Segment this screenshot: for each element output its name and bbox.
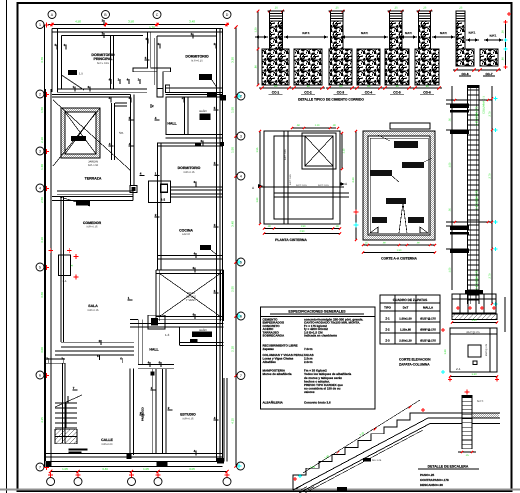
svg-text:1.20: 1.20 (471, 319, 477, 322)
svg-text:1.20x.80: 1.20x.80 (400, 328, 411, 332)
svg-text:2.70: 2.70 (489, 111, 492, 117)
svg-text:2: 2 (39, 92, 41, 96)
fixture blob (68, 70, 77, 75)
wall below dormitorio2 (166, 87, 223, 89)
svg-text:1.50: 1.50 (40, 107, 44, 113)
lavanderia blob (207, 93, 216, 97)
svg-text:SOBRECARGA: SOBRECARGA (263, 334, 286, 338)
svg-text:DESCANSO=.90: DESCANSO=.90 (420, 483, 443, 487)
stair hatch small (292, 482, 294, 490)
svg-text:5: 5 (39, 265, 41, 269)
svg-text:1.50: 1.50 (449, 267, 452, 272)
annotation blobs corte (394, 141, 418, 148)
corte cisterna top slab (390, 123, 430, 129)
block right wall top (220, 95, 226, 101)
column top red (465, 391, 470, 393)
svg-text:3.30: 3.30 (231, 57, 235, 63)
svg-text:Muros de albañilería: Muros de albañilería (263, 372, 292, 376)
footing hatch ground (452, 314, 497, 320)
wall band below pozo (130, 323, 224, 325)
top-left corner jog (57, 30, 59, 36)
svg-text:1.30: 1.30 (40, 164, 44, 170)
planta cisterna right dims (341, 133, 343, 169)
svg-text:Z-1: Z-1 (385, 317, 390, 321)
svg-text:N.P.T.: N.P.T. (469, 32, 476, 35)
corridor walls center-left (130, 95, 132, 186)
svg-text:.80: .80 (339, 85, 343, 88)
entrada door swing (60, 197, 90, 206)
svg-text:HALL: HALL (167, 122, 177, 126)
svg-text:MALLA: MALLA (423, 306, 434, 310)
planta cisterna top dims (292, 127, 336, 129)
svg-text:.30: .30 (335, 225, 339, 228)
red marks footing (456, 307, 460, 309)
door swing dormitorio principal (62, 75, 85, 90)
dimension line under CC-1 (259, 87, 292, 89)
svg-text:Z-3: Z-3 (385, 339, 390, 343)
upper hall top wall (166, 94, 223, 96)
small footing CC-7 (480, 49, 498, 66)
svg-text:Z-2: Z-2 (385, 328, 390, 332)
footing elevation (452, 294, 496, 313)
landing slab (423, 412, 500, 414)
svg-text:6 Ø 1/2@0.175: 6 Ø 1/2@0.175 (475, 190, 479, 209)
svg-text:3.10: 3.10 (40, 237, 44, 243)
svg-text:1.20: 1.20 (471, 373, 477, 376)
svg-text:Concreto bruto 3.6: Concreto bruto 3.6 (304, 401, 331, 405)
column block calle (127, 454, 132, 460)
svg-text:2.70: 2.70 (489, 273, 492, 279)
bano2 blobs (192, 332, 212, 338)
zapata tiny square (473, 361, 477, 365)
svg-text:1-1: 1-1 (62, 279, 67, 283)
svg-text:1.05: 1.05 (62, 467, 68, 471)
svg-text:1-3: 1-3 (165, 333, 170, 337)
dimension line under CC-3 (326, 87, 355, 89)
svg-text:CALLE: CALLE (101, 438, 113, 442)
svg-text:3.00: 3.00 (40, 347, 44, 353)
svg-text:N.P.T.: N.P.T. (361, 31, 368, 35)
foundation footing CC-3 (329, 49, 352, 85)
dim lines crossing column (446, 99, 492, 101)
closet blob cocina (200, 245, 211, 250)
stair steps (293, 413, 423, 482)
right side dimension line (235, 27, 237, 466)
svg-text:PRINCIPAL: PRINCIPAL (93, 57, 113, 61)
landing hatch (473, 414, 499, 418)
top dimension line (48, 24, 227, 26)
right vertical dim foundations (505, 22, 507, 67)
svg-text:.80: .80 (274, 85, 278, 88)
grid circles left column (36, 21, 44, 29)
zapata dims (450, 376, 497, 378)
svg-text:.30: .30 (267, 225, 271, 228)
zapata plan square (450, 328, 497, 372)
svg-text:2.50: 2.50 (300, 230, 305, 233)
cuadro table (380, 303, 440, 344)
svg-text:.80: .80 (306, 85, 310, 88)
svg-text:PASADIZO: PASADIZO (142, 407, 145, 421)
svg-text:.80: .80 (425, 85, 429, 88)
stairwell walls bottom-left (46, 358, 66, 360)
room dormitorio principal inner walls (61, 36, 63, 76)
svg-text:Ø1/2"@.175: Ø1/2"@.175 (485, 343, 488, 356)
bano bottom wall (166, 134, 223, 136)
patio X diagonals (65, 112, 96, 154)
leader lines corte (378, 135, 390, 141)
junction box corridor (130, 186, 137, 193)
wall below upper hall (157, 142, 222, 144)
svg-text:ZAPATA-COLUMNA: ZAPATA-COLUMNA (399, 363, 430, 367)
svg-text:3.05: 3.05 (189, 467, 195, 471)
svg-text:N=+1.25: N=+1.25 (372, 459, 382, 462)
dimension line under CG-6 (412, 87, 442, 89)
svg-text:ALBAÑILERIA: ALBAÑILERIA (263, 401, 284, 405)
svg-text:Z-1: Z-1 (456, 367, 461, 371)
svg-text:C: C (156, 13, 159, 17)
closet diagonal (212, 80, 218, 89)
escalera blob (69, 448, 88, 450)
wall left of pasadizo (129, 369, 131, 455)
pozo X diagonals (160, 274, 221, 317)
svg-text:N.P.T.: N.P.T. (490, 35, 497, 38)
svg-text:1.20: 1.20 (255, 27, 258, 33)
column rungs (468, 89, 480, 91)
svg-text:CC-7: CC-7 (485, 72, 492, 76)
corridor small box (151, 371, 155, 375)
comedor right wall (60, 197, 62, 342)
svg-text:CONTRAPASO=.178: CONTRAPASO=.178 (420, 478, 449, 482)
plan outer wall bottom (46, 453, 223, 455)
svg-text:7: 7 (39, 465, 41, 469)
svg-text:1.50: 1.50 (231, 107, 235, 113)
svg-text:CC-2: CC-2 (304, 91, 312, 95)
svg-text:1-2: 1-2 (161, 198, 166, 202)
svg-text:N.P.T. 0.15: N.P.T. 0.15 (318, 184, 329, 187)
grid circle bottom right (237, 462, 245, 470)
svg-text:.25: .25 (335, 7, 339, 10)
central spine wall upper and cross (133, 32, 171, 89)
plan outer wall left upper (51, 29, 53, 93)
svg-text:N.P.T.: N.P.T. (302, 31, 309, 35)
foundation footing CC-2 (294, 49, 322, 85)
svg-text:2.20: 2.20 (352, 177, 355, 183)
svg-text:CC-5: CC-5 (393, 91, 401, 95)
svg-text:2.10: 2.10 (40, 137, 44, 143)
block at right wall junction (220, 142, 225, 146)
stair slab lines (293, 418, 428, 490)
svg-text:DETALLE TIPICO DE CIMIENTO COR: DETALLE TIPICO DE CIMIENTO CORRIDO (298, 98, 364, 102)
sump triangle (399, 203, 407, 233)
svg-text:N.P.T.: N.P.T. (440, 31, 447, 35)
dimension line under CC-2 (291, 87, 325, 89)
small footing CC-6 (456, 49, 474, 66)
planta cisterna left dims (259, 131, 261, 224)
svg-text:3.40: 3.40 (189, 20, 195, 24)
junction column 1-2 (149, 181, 171, 202)
sala bottom double wall (61, 342, 134, 344)
svg-text:1.05: 1.05 (143, 467, 149, 471)
svg-text:1.10: 1.10 (343, 148, 346, 153)
svg-text:N.P.+0.15: N.P.+0.15 (184, 171, 195, 174)
left npt arrow (255, 36, 268, 38)
left vertical dim foundations (257, 11, 259, 85)
svg-text:6: 6 (240, 314, 242, 318)
svg-text:1.55: 1.55 (256, 147, 259, 152)
svg-text:Ø3/8"@.175: Ø3/8"@.175 (420, 328, 436, 332)
patio extended diagonals (53, 100, 130, 170)
junction column 1-3 (148, 315, 165, 329)
svg-text:6: 6 (39, 373, 41, 377)
svg-text:1.50: 1.50 (231, 147, 235, 153)
svg-text:TIPO: TIPO (384, 306, 391, 310)
svg-text:N.P.T.: N.P.T. (405, 31, 412, 35)
N.P.T. arrows row (284, 36, 328, 38)
especificaciones box (261, 307, 376, 409)
svg-text:CORTE ELEVACION: CORTE ELEVACION (399, 358, 431, 362)
corner chamfers (370, 227, 378, 233)
pozo de luz box (155, 270, 157, 321)
planta cisterna bottom dims (264, 228, 340, 230)
svg-text:.50: .50 (449, 118, 452, 122)
patio hatched border (61, 108, 100, 158)
assorted opening ticks (56, 44, 58, 49)
tank square (302, 133, 336, 169)
corte left dim (355, 131, 357, 240)
svg-text:3.50: 3.50 (128, 20, 134, 24)
lower band (274, 192, 349, 194)
planta cisterna inner (274, 136, 333, 219)
terraza bottom wall band (57, 190, 133, 192)
svg-text:SALA: SALA (88, 304, 98, 308)
svg-text:.60: .60 (502, 57, 505, 61)
sheet border left line (6, 0, 8, 493)
svg-text:COMEDOR: COMEDOR (83, 221, 102, 225)
svg-text:COLUMNA C-1: COLUMNA C-1 (483, 96, 486, 114)
wall right of dormitorio principal (110, 36, 112, 90)
column bottom dim (458, 451, 476, 453)
svg-text:N.P.+0.15: N.P.+0.15 (191, 60, 203, 63)
middle dormitorio walls (157, 143, 159, 192)
section line A-A (258, 186, 344, 188)
svg-text:CC-3: CC-3 (337, 91, 345, 95)
svg-text:1.25: 1.25 (310, 466, 315, 469)
A markers (258, 184, 263, 188)
wall below dormitorio principal (57, 88, 147, 90)
svg-text:.25: .25 (459, 7, 463, 10)
svg-text:DORMITORIO: DORMITORIO (185, 55, 208, 59)
closet blob dormitorio2 (199, 74, 212, 80)
svg-text:4.15: 4.15 (40, 417, 44, 423)
plan outer wall right (216, 29, 218, 462)
svg-text:.25: .25 (394, 7, 398, 10)
central spine wall middle (157, 143, 159, 270)
patio label blob (71, 136, 86, 141)
stair column (461, 395, 463, 449)
svg-text:2.00x1.20: 2.00x1.20 (399, 339, 412, 343)
entrada label blob (76, 201, 90, 206)
svg-text:Albañiles: Albañiles (263, 360, 277, 364)
bano blob upper (200, 114, 211, 121)
wall above patio (52, 94, 131, 96)
column top cap (468, 85, 480, 88)
svg-text:DxT: DxT (403, 306, 409, 310)
svg-text:Zapatas: Zapatas (263, 347, 275, 351)
stem end box (157, 89, 163, 97)
foundation footing CC-4 (357, 49, 380, 85)
svg-text:4.15: 4.15 (231, 418, 235, 424)
svg-text:Y VENT.: Y VENT. (186, 298, 197, 302)
bano2 walls (179, 342, 223, 344)
vertical band (283, 131, 285, 224)
svg-text:4: 4 (39, 186, 41, 190)
svg-text:ESTUDIO: ESTUDIO (180, 413, 196, 417)
plan outer wall left lower (45, 89, 47, 461)
planta cisterna outer (264, 131, 340, 224)
svg-text:N.P.T. 0.15: N.P.T. 0.15 (296, 184, 307, 187)
stair hatch plan (55, 429, 77, 436)
column over CC-1 (270, 21, 283, 49)
stem box 2 (166, 85, 170, 92)
corte cisterna walls (363, 131, 435, 240)
svg-text:DETALLE DE ESCALERA: DETALLE DE ESCALERA (428, 465, 469, 469)
svg-text:N.P.T.: N.P.T. (477, 400, 484, 403)
cocina walls (157, 194, 159, 259)
tank X (305, 136, 333, 166)
svg-text:6 Ø 1/2@0.175: 6 Ø 1/2@0.175 (475, 270, 479, 289)
footing dim (452, 322, 497, 324)
svg-text:.50: .50 (449, 208, 452, 212)
svg-text:CORTE A-A CISTERNA: CORTE A-A CISTERNA (381, 257, 417, 261)
svg-text:BAÑO: BAÑO (199, 109, 206, 113)
svg-text:3.40: 3.40 (231, 221, 235, 227)
red marks stair (293, 478, 297, 480)
svg-text:1.90: 1.90 (397, 249, 402, 252)
svg-text:3: 3 (240, 134, 242, 138)
svg-text:N.P.+0.15: N.P.+0.15 (183, 417, 194, 420)
svg-text:.80: .80 (255, 65, 258, 69)
estudio walls (165, 376, 167, 453)
npt arrows small (466, 39, 479, 41)
svg-text:1.5: 1.5 (79, 72, 83, 76)
bottom dimension line (51, 471, 227, 473)
svg-text:D: D (226, 13, 229, 17)
right edge line footing (504, 297, 506, 332)
svg-text:Ø1/2"@.175: Ø1/2"@.175 (466, 331, 480, 334)
svg-text:6 Ø 1/2@0.175: 6 Ø 1/2@0.175 (475, 106, 479, 125)
svg-text:N.P.-1.50: N.P.-1.50 (88, 164, 99, 167)
section column 1-1 (58, 255, 70, 276)
cuadro de zapatas title (380, 295, 440, 303)
svg-text:4: 4 (240, 174, 242, 178)
svg-text:3.40: 3.40 (102, 467, 108, 471)
svg-text:BAÑO: BAÑO (199, 328, 206, 332)
column elevation verticals (467, 85, 469, 304)
foundation footing CC-1 (262, 49, 289, 85)
svg-text:.25: .25 (274, 7, 278, 10)
svg-text:1.50: 1.50 (449, 162, 452, 167)
svg-text:N.P.+ 0.15: N.P.+ 0.15 (97, 62, 110, 65)
foundation footing CC-5 (385, 49, 409, 85)
grid circles top (48, 11, 56, 19)
grid circles right column (237, 92, 245, 100)
hall left wall (165, 97, 167, 135)
column over CG-6 (419, 21, 431, 49)
dimension line under CC-5 (382, 87, 412, 89)
bottom gray line (0, 489, 520, 491)
svg-text:COCINA: COCINA (179, 229, 193, 233)
hall bottom wall (138, 364, 174, 366)
svg-text:7.0cm: 7.0cm (304, 347, 313, 351)
svg-text:.50: .50 (502, 30, 505, 34)
svg-text:ESPECIFICACIONES GENERALES: ESPECIFICACIONES GENERALES (288, 310, 346, 314)
svg-text:2.10: 2.10 (231, 346, 235, 352)
stair steps plan (55, 402, 77, 404)
svg-text:Indicada en c/ambiente: Indicada en c/ambiente (304, 334, 337, 338)
corridor stub (115, 102, 127, 104)
svg-text:1: 1 (39, 23, 41, 27)
stair dim diagonal (303, 400, 420, 473)
zapata inner square (468, 345, 481, 357)
grid circles bottom (47, 478, 55, 486)
svg-text:N.P.T. 0.15: N.P.T. 0.15 (289, 174, 292, 185)
left dimension line (44, 25, 46, 468)
svg-text:N.P.+0.15: N.P.+0.15 (88, 309, 99, 312)
svg-text:CC-1: CC-1 (272, 91, 280, 95)
svg-text:1.90: 1.90 (301, 225, 306, 228)
svg-text:1.60: 1.60 (256, 197, 259, 202)
svg-text:1.10: 1.10 (315, 124, 320, 127)
dimension line under CC-4 (354, 87, 383, 89)
svg-text:valores: valores (304, 390, 315, 394)
svg-text:N.P.±0.00: N.P.±0.00 (102, 443, 113, 446)
svg-text:DORMITORIO: DORMITORIO (178, 166, 201, 170)
svg-text:5: 5 (240, 260, 242, 264)
svg-text:Ø1/2"@.175: Ø1/2"@.175 (420, 339, 436, 343)
svg-text:Ø1/2"@.175: Ø1/2"@.175 (420, 317, 436, 321)
svg-text:3: 3 (39, 149, 41, 153)
left slab beam marks (450, 104, 469, 108)
corte bottom dims (363, 244, 435, 246)
svg-text:SH.: SH. (119, 131, 124, 135)
svg-text:CUADRO DE ZAPATAS: CUADRO DE ZAPATAS (393, 298, 428, 302)
svg-text:N.P.+0.15: N.P.+0.15 (87, 226, 98, 229)
svg-text:CC-6: CC-6 (461, 72, 468, 76)
svg-text:CC-4: CC-4 (365, 91, 373, 95)
foundation footing CG-6 (415, 49, 439, 85)
room dormitorio2 inner walls (157, 35, 216, 37)
right dim column (491, 86, 493, 304)
closet diagonal cocina (211, 250, 217, 255)
svg-text:2: 2 (240, 94, 242, 98)
hall center walls (137, 319, 139, 364)
svg-text:.80: .80 (395, 85, 399, 88)
svg-text:2.70: 2.70 (489, 173, 492, 179)
svg-text:PLANTA CISTERNA: PLANTA CISTERNA (275, 238, 307, 242)
svg-text:.30: .30 (332, 124, 336, 127)
wall stub left of hall (130, 318, 138, 320)
svg-text:CG-6: CG-6 (423, 91, 431, 95)
svg-text:3.70: 3.70 (40, 57, 44, 63)
svg-text:.80: .80 (367, 85, 371, 88)
svg-text:HALL: HALL (149, 348, 159, 352)
svg-text:1.20: 1.20 (444, 349, 447, 355)
bottom inner column blocks (156, 461, 167, 467)
left dim column (451, 86, 453, 290)
svg-text:2.55: 2.55 (231, 286, 235, 292)
plan outer wall top (52, 28, 223, 30)
lower corridor walls (151, 369, 153, 454)
